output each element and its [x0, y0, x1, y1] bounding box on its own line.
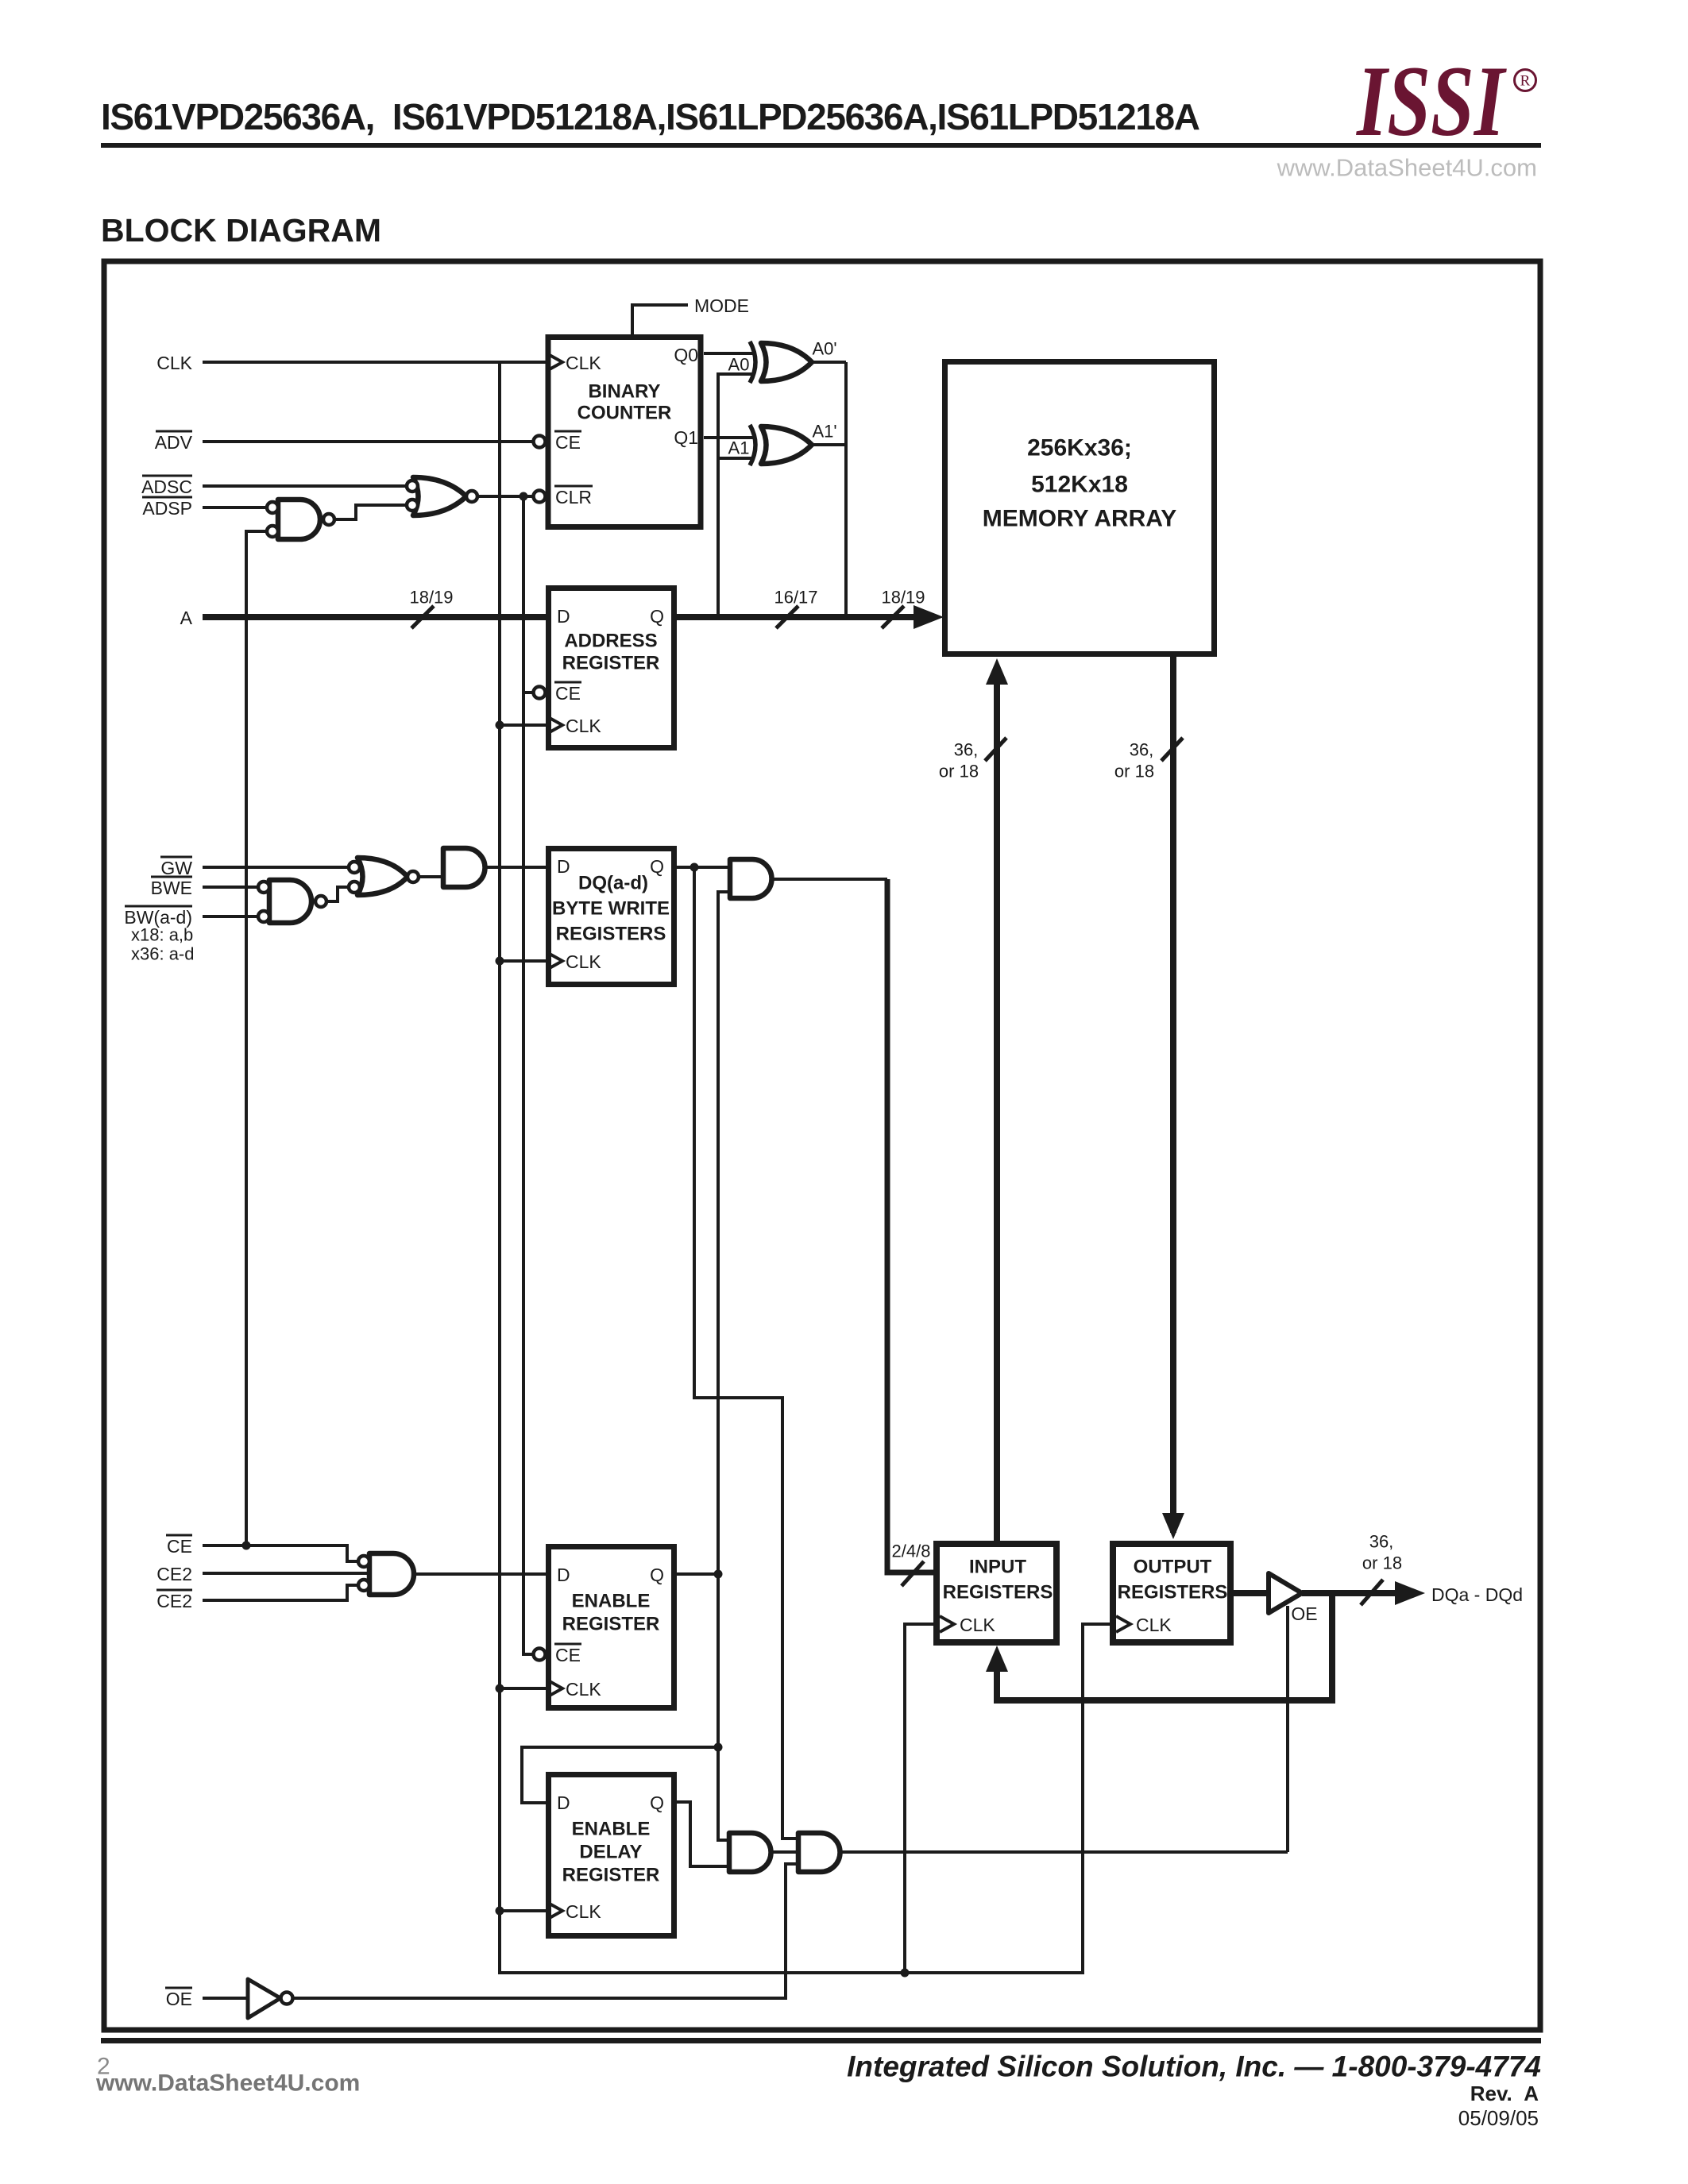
svg-text:ENABLE: ENABLE [572, 1591, 651, 1612]
slash bus width 36 or 18 output [1161, 738, 1183, 761]
bus buffer to DQ pads [1302, 1590, 1396, 1596]
AND gate U9 (byte write gating) [730, 859, 772, 898]
svg-text:CLK: CLK [566, 951, 601, 972]
wire enable register Q [677, 1572, 718, 1576]
clock wedge enable delay register [548, 1903, 562, 1919]
svg-text:36,: 36, [954, 740, 979, 760]
arrowhead feedback into input registers [986, 1646, 1008, 1672]
svg-text:05/09/05: 05/09/05 [1458, 2106, 1539, 2130]
wire address register CE tap [523, 691, 533, 694]
bubble NAND U6 input 2 [258, 911, 269, 922]
wire XOR U5 output A1' [812, 443, 846, 446]
wire write enable vertical from enable register Q [718, 892, 730, 1840]
slash bus width 2/4/8 [902, 1561, 924, 1586]
buffer U21 (tri-state output) [1269, 1573, 1302, 1613]
svg-text:GW: GW [160, 858, 192, 878]
svg-text:ENABLE: ENABLE [572, 1819, 651, 1840]
svg-text:Q: Q [650, 606, 664, 627]
bus data into memory array [994, 666, 1000, 1541]
svg-text:REGISTERS: REGISTERS [1118, 1582, 1228, 1603]
wire AND U8 output to byte write register D [485, 866, 546, 869]
slash bus width 18/19 right [882, 606, 904, 628]
svg-text:OE: OE [1291, 1603, 1317, 1624]
wire AND U12 output to enable register D [414, 1572, 546, 1576]
svg-text:DELAY: DELAY [579, 1842, 642, 1863]
AND gate U8 (write strobe) [443, 848, 485, 887]
wire NAND U2 lower input from CE line [246, 531, 267, 1545]
slash bus width 36 or 18 DQ [1361, 1580, 1383, 1605]
wire enable delay register Q to AND U10 [677, 1802, 729, 1866]
svg-text:BYTE WRITE: BYTE WRITE [552, 898, 670, 920]
svg-text:D: D [557, 1792, 570, 1813]
wire enable delay register D feed [522, 1747, 718, 1803]
clock wedge input registers [940, 1616, 954, 1632]
wire NOR U7 output to AND U8 [419, 875, 443, 878]
arrowhead data into memory array [986, 658, 1008, 685]
wire AND U11 output to buffer enable [840, 1850, 1288, 1854]
bubble address register CE [534, 687, 546, 699]
AND gate U10 (enable delay gating) [729, 1833, 771, 1872]
wire CE2 input [203, 1572, 369, 1575]
wire CLK distribution vertical and bottom clock rail [500, 362, 1112, 1973]
svg-text:CE2: CE2 [156, 1564, 192, 1584]
NOR gate U7 (write control) [357, 858, 408, 895]
svg-text:ADDRESS: ADDRESS [564, 631, 657, 652]
junction byte write CLK [496, 957, 504, 966]
svg-text:or 18: or 18 [1362, 1553, 1402, 1573]
clock wedge enable register [548, 1680, 562, 1696]
svg-text:Rev. A: Rev. A [1470, 2082, 1539, 2105]
svg-text:BLOCK DIAGRAM: BLOCK DIAGRAM [101, 212, 381, 249]
bubble NAND U2 input 2 [267, 526, 278, 537]
junction byte write Q [690, 863, 699, 872]
bubble NAND U6 output [315, 896, 326, 907]
clock wedge counter [548, 354, 562, 370]
svg-text:or 18: or 18 [1114, 762, 1154, 781]
clock wedge address register [548, 717, 562, 733]
junction CE node [242, 1542, 251, 1550]
arrowhead data into output registers [1162, 1513, 1184, 1539]
svg-text:A1': A1' [812, 422, 836, 442]
svg-text:DQ(a-d): DQ(a-d) [578, 873, 648, 894]
clock wedge byte write registers [548, 953, 562, 969]
svg-text:R: R [1520, 73, 1531, 90]
svg-text:ADSP: ADSP [142, 498, 192, 519]
memory array U15 [945, 362, 1215, 654]
bubble counter CLR [534, 491, 546, 503]
svg-text:A0: A0 [728, 355, 750, 375]
svg-text:CE2: CE2 [156, 1591, 192, 1611]
junction address CLK [496, 721, 504, 730]
byte write registers U14 [549, 849, 674, 985]
svg-text:CLK: CLK [156, 353, 192, 373]
svg-text:Q1: Q1 [674, 427, 698, 448]
svg-text:INPUT: INPUT [969, 1557, 1026, 1578]
svg-text:www.DataSheet4U.com: www.DataSheet4U.com [1277, 154, 1537, 182]
wire OE input [203, 1997, 248, 2000]
bubble NOR U3 output [466, 491, 477, 502]
bubble NAND U6 input 1 [258, 882, 269, 893]
junction delay CLK [496, 1907, 504, 1916]
wire buffer enable vertical [1286, 1606, 1289, 1852]
svg-text:MEMORY ARRAY: MEMORY ARRAY [983, 506, 1176, 532]
wire AND U10 output to AND U11 [771, 1850, 798, 1854]
svg-text:36,: 36, [1130, 740, 1154, 760]
svg-text:x36: a-d: x36: a-d [131, 944, 195, 964]
wire CE2-bar input [203, 1585, 358, 1600]
svg-text:www.DataSheet4U.com: www.DataSheet4U.com [95, 2070, 360, 2097]
bubble AND U12 input 1 [358, 1556, 369, 1567]
svg-text:36,: 36, [1369, 1532, 1394, 1552]
ISSI registered mark [1515, 70, 1536, 91]
svg-text:CLK: CLK [1136, 1615, 1172, 1635]
enable register U16 [549, 1547, 674, 1708]
bubble NOR U7 input 1 [349, 862, 360, 873]
wire input registers CLK feed [905, 1624, 937, 1973]
wire byte write register CLK tap [500, 959, 546, 963]
svg-text:OUTPUT: OUTPUT [1134, 1557, 1212, 1578]
wire A0'/A1' down to address bus [844, 362, 848, 617]
svg-text:REGISTER: REGISTER [562, 653, 660, 674]
svg-text:18/19: 18/19 [881, 588, 925, 608]
inverter U20 (OE) [248, 1979, 280, 2018]
bus write data feedback to input registers [997, 1593, 1332, 1700]
svg-text:Q: Q [650, 1565, 664, 1585]
svg-text:D: D [557, 856, 570, 877]
arrowhead DQ output [1395, 1581, 1425, 1605]
bubble AND U12 input 3 [358, 1580, 369, 1591]
svg-text:CE: CE [167, 1536, 192, 1557]
wire byte write register Q to AND U9 [677, 866, 730, 869]
junction enable CLK [496, 1684, 504, 1693]
wire NOR U3 output to counter CLR [477, 495, 533, 498]
svg-text:CLK: CLK [960, 1615, 995, 1635]
slash bus width 16/17 [776, 606, 798, 628]
bubble NOR U3 input 1 [407, 480, 418, 492]
wire A-bus feedback to XOR inputs [718, 374, 753, 617]
wire NAND U6 output to NOR U7 input [326, 887, 349, 901]
binary counter U1 [548, 338, 701, 527]
wire ADV to counter CE [203, 440, 533, 443]
wire NAND U2 output to NOR U3 input [334, 505, 407, 519]
svg-text:CE: CE [555, 432, 581, 453]
svg-text:512Kx18: 512Kx18 [1031, 472, 1128, 498]
svg-text:REGISTERS: REGISTERS [556, 924, 666, 945]
NAND gate U2 (ADSP/ADSC) [278, 500, 320, 539]
bus 2/4/8 byte write enables [887, 879, 933, 1572]
AND gate U12 (chip enable) [369, 1553, 414, 1595]
wire address register CLK tap [500, 723, 546, 727]
bottom double rule [101, 2038, 1541, 2043]
bubble inverter U20 output [281, 1993, 293, 2005]
diagram frame [104, 261, 1540, 2030]
svg-text:BINARY: BINARY [588, 381, 660, 403]
bubble counter CE [534, 436, 546, 448]
svg-text:CLK: CLK [566, 1901, 601, 1922]
junction delay D feed [714, 1743, 723, 1752]
svg-text:A1: A1 [728, 438, 750, 458]
bus data memory to output registers [1170, 657, 1176, 1533]
wire GW to NOR U7 [203, 866, 349, 869]
bubble NAND U2 input 1 [267, 502, 278, 513]
svg-text:MODE: MODE [694, 295, 749, 316]
svg-text:Q0: Q0 [674, 345, 698, 365]
wire Q0 to XOR U4 [704, 352, 753, 355]
wire BW(a-d) to NAND U6 [203, 915, 257, 918]
wire BWE to NAND U6 [203, 886, 257, 889]
bubble NOR U7 input 2 [349, 882, 360, 893]
junction CLR node [520, 492, 528, 501]
address register U13 [549, 588, 674, 748]
slash bus width 36 or 18 input [985, 738, 1006, 761]
svg-text:ADSC: ADSC [141, 477, 192, 497]
wire AND U9 output [772, 878, 887, 881]
wire XOR U4 output A0' [812, 361, 846, 364]
svg-text:COUNTER: COUNTER [577, 403, 672, 424]
NOR gate U3 (address status) [413, 477, 466, 515]
NAND gate U6 (BWE/BW) [269, 880, 311, 923]
svg-text:OE: OE [166, 1989, 192, 2009]
svg-text:CE: CE [555, 683, 581, 704]
wire enable register CLK tap [500, 1687, 546, 1690]
svg-text:Q: Q [650, 856, 664, 877]
svg-text:CLK: CLK [566, 353, 601, 373]
svg-text:x18: a,b: x18: a,b [131, 925, 193, 945]
input registers U18 [937, 1544, 1056, 1642]
svg-text:REGISTERS: REGISTERS [943, 1582, 1053, 1603]
wire Q1 to XOR U5 [704, 436, 753, 439]
XOR gate U4 (A0) [761, 343, 812, 381]
svg-text:CLK: CLK [566, 1679, 601, 1700]
svg-text:IS61VPD25636A, IS61VPD51218A,: IS61VPD25636A, IS61VPD51218A,IS61LPD2563… [101, 96, 1200, 137]
svg-text:ADV: ADV [155, 432, 193, 453]
svg-text:18/19: 18/19 [409, 588, 453, 608]
slash bus width 18/19 left [411, 606, 434, 628]
svg-text:D: D [557, 606, 570, 627]
bubble NOR U3 input 2 [407, 500, 418, 511]
wire ADSP to NAND input [203, 506, 267, 509]
output registers U19 [1113, 1544, 1230, 1642]
wire CE input [203, 1545, 358, 1561]
junction enable register Q [714, 1570, 723, 1579]
svg-text:2/4/8: 2/4/8 [892, 1542, 931, 1561]
AND gate U11 (output enable gating) [798, 1833, 840, 1872]
wire OE buffered to AND U11 [292, 1864, 798, 1998]
wire MODE [632, 305, 688, 334]
bubble enable register CE [534, 1649, 546, 1661]
svg-text:REGISTER: REGISTER [562, 1614, 660, 1635]
svg-text:CLK: CLK [566, 716, 601, 736]
svg-text:16/17: 16/17 [774, 588, 817, 608]
svg-text:DQa - DQd: DQa - DQd [1431, 1584, 1523, 1605]
arrowhead address bus into memory [914, 605, 944, 629]
svg-text:Integrated Silicon Solution, I: Integrated Silicon Solution, Inc. — 1-80… [847, 2051, 1541, 2083]
bus output registers to buffer [1230, 1590, 1269, 1596]
wire CLK input [203, 361, 546, 364]
svg-text:BWE: BWE [151, 878, 192, 898]
wire byte write Q branch to output enable AND U11 [694, 867, 798, 1839]
svg-text:or 18: or 18 [939, 762, 979, 781]
svg-text:Q: Q [650, 1792, 664, 1813]
svg-text:CLR: CLR [555, 487, 592, 507]
XOR gate U5 (A1) [761, 426, 812, 464]
bus A right segment to memory [677, 614, 918, 620]
wire A-bus feedback tap to XOR U5 [718, 457, 753, 460]
junction clock rail [901, 1969, 910, 1978]
svg-text:A0': A0' [812, 339, 836, 359]
wire ADSC to NOR input [203, 484, 407, 488]
svg-text:CE: CE [555, 1645, 581, 1665]
svg-text:D: D [557, 1565, 570, 1585]
header rule [101, 143, 1541, 148]
bubble NAND U2 output [323, 514, 334, 525]
svg-text:A: A [180, 608, 193, 628]
svg-text:ISSI: ISSI [1355, 46, 1507, 157]
wire enable delay register CLK tap [500, 1909, 546, 1912]
bus A left segment [203, 614, 546, 620]
bubble NOR U7 output [408, 871, 419, 882]
wire CLR branch vertical to enable register CE [523, 496, 533, 1654]
clock wedge output registers [1116, 1616, 1130, 1632]
enable delay register U17 [549, 1775, 674, 1936]
svg-text:256Kx36;: 256Kx36; [1027, 435, 1132, 461]
svg-text:REGISTER: REGISTER [562, 1865, 660, 1886]
